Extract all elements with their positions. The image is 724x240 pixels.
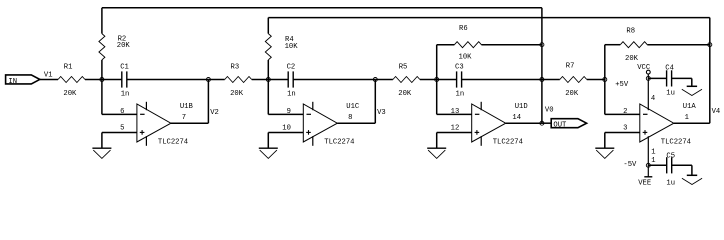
op-amp U1D plus sign: [475, 131, 480, 133]
power symbol VCC: [646, 70, 650, 74]
wire IN to R1: [40, 79, 58, 81]
svg-text:14: 14: [512, 114, 521, 122]
svg-text:TLC2274: TLC2274: [324, 139, 354, 147]
svg-text:1n: 1n: [287, 90, 296, 98]
op-amp U1B minus sign: [140, 113, 145, 115]
wire to ground: [436, 133, 438, 148]
capacitor C4 1u: [666, 70, 668, 86]
svg-text:U1C: U1C: [346, 103, 360, 111]
op-amp U1C V+ stub: [312, 102, 314, 110]
wire VEE to C5: [648, 164, 666, 166]
wire R5 to node C: [420, 79, 437, 81]
resistor R7 20K: [560, 77, 587, 83]
svg-text:R3: R3: [231, 63, 240, 71]
wire output pin 1: [674, 122, 710, 124]
svg-text:+5V: +5V: [615, 81, 629, 89]
svg-text:6: 6: [120, 108, 124, 116]
svg-text:8: 8: [348, 114, 352, 122]
svg-text:C2: C2: [287, 64, 296, 72]
svg-text:20K: 20K: [398, 90, 412, 98]
capacitor C3 1n: [456, 71, 458, 87]
svg-text:IN: IN: [8, 78, 17, 86]
svg-text:U1B: U1B: [180, 103, 194, 111]
svg-text:1u: 1u: [666, 180, 675, 188]
resistor R4 10K: [265, 34, 271, 60]
wire R2 to node A: [101, 60, 103, 80]
wire rail2 drop to R4: [267, 18, 269, 34]
svg-text:V1: V1: [44, 71, 53, 79]
op-amp U1B triangle: [137, 104, 171, 142]
op-amp U1B plus sign: [140, 131, 145, 133]
wire output pin 14: [506, 122, 542, 124]
svg-text:20K: 20K: [117, 42, 131, 50]
svg-text:C5: C5: [666, 153, 675, 161]
wire R3 to node B: [252, 79, 269, 81]
wire node C up to R6: [436, 45, 438, 80]
junction node B: [266, 78, 270, 82]
svg-text:20K: 20K: [625, 55, 639, 63]
resistor R2 20K: [99, 34, 105, 60]
svg-text:-5V: -5V: [623, 161, 637, 169]
ground: [427, 147, 446, 149]
wire R1 to node A: [85, 79, 102, 81]
op-amp U1D minus sign: [475, 113, 480, 115]
op-amp U1C triangle: [303, 104, 337, 142]
svg-text:10: 10: [282, 124, 291, 132]
wire VCC to pin 4: [647, 74, 649, 110]
junction V0 output: [540, 121, 544, 125]
svg-text:R7: R7: [566, 62, 575, 70]
resistor R1 20K: [58, 77, 85, 83]
svg-text:7: 7: [182, 114, 186, 122]
wire node to C2: [268, 79, 288, 81]
ground: [92, 147, 111, 149]
svg-text:U1D: U1D: [515, 103, 528, 111]
svg-text:20K: 20K: [63, 90, 77, 98]
wire output pin 7: [171, 122, 209, 124]
wire node to C1: [102, 79, 122, 81]
capacitor C1 1n: [121, 71, 123, 87]
wire non-inverting input pin 3: [605, 132, 640, 134]
op-amp U1D V- stub: [480, 136, 482, 146]
svg-text:TLC2274: TLC2274: [493, 139, 523, 147]
wire node down to pin 9: [267, 80, 269, 115]
wire non-inverting input pin 5: [102, 132, 137, 134]
wire V3 to R5: [375, 79, 393, 81]
wire node D up to R8: [604, 45, 606, 80]
svg-text:C4: C4: [665, 65, 674, 73]
wire inverting input pin 13: [437, 113, 472, 115]
ground for C4: [687, 85, 697, 87]
op-amp U1A triangle: [640, 104, 674, 142]
wire V4 column: [709, 18, 711, 124]
junction node D: [603, 78, 607, 82]
svg-text:U1A: U1A: [683, 103, 697, 111]
junction node A: [100, 78, 104, 82]
wire R8 to V4 column: [647, 44, 710, 46]
junction node C: [435, 78, 439, 82]
svg-text:2: 2: [623, 108, 627, 116]
wire to ground: [101, 133, 103, 148]
wire C5 to ground: [672, 164, 692, 166]
ground: [595, 147, 614, 149]
svg-text:10K: 10K: [459, 53, 473, 61]
ground: [259, 147, 278, 149]
ground for C5: [687, 174, 697, 176]
wire output pin 8: [337, 122, 375, 124]
svg-text:1n: 1n: [456, 90, 465, 98]
svg-text:1: 1: [651, 148, 655, 156]
wire C1 to output column: [127, 79, 209, 81]
svg-text:20K: 20K: [565, 90, 579, 98]
wire V3 column: [374, 80, 376, 124]
resistor R3 20K: [225, 77, 252, 83]
svg-text:V0: V0: [545, 106, 554, 114]
wire node down to pin 6: [101, 80, 103, 115]
svg-text:R6: R6: [459, 25, 468, 33]
wire C2 to output column: [293, 79, 375, 81]
wire rail1 drop to R2: [101, 8, 103, 34]
resistor R8 20K: [620, 42, 647, 48]
junction V2: [206, 78, 210, 82]
port IN: [6, 75, 40, 84]
wire R7 from V0 node: [542, 79, 560, 81]
wire R4 to node B: [267, 60, 269, 80]
junction VCC branch: [646, 76, 650, 80]
op-amp U1B V- stub: [145, 136, 147, 146]
svg-text:V4: V4: [712, 108, 721, 116]
svg-text:1u: 1u: [666, 90, 675, 98]
junction V0 main line: [540, 78, 544, 82]
svg-text:10K: 10K: [285, 43, 299, 51]
op-amp U1C minus sign: [307, 113, 312, 115]
op-amp U1A minus sign: [643, 113, 648, 115]
wire V2 column: [207, 80, 209, 124]
capacitor C2 1n: [287, 71, 289, 87]
svg-text:12: 12: [451, 124, 460, 132]
op-amp U1C plus sign: [306, 131, 311, 133]
svg-text:C3: C3: [455, 64, 464, 72]
power symbol VEE: [644, 176, 652, 178]
wire V0 column: [541, 8, 543, 123]
wire C4 to ground: [672, 77, 692, 79]
svg-text:V3: V3: [377, 109, 386, 117]
port OUT: [551, 119, 586, 128]
op-amp U1D triangle: [472, 104, 506, 142]
svg-text:9: 9: [287, 108, 291, 116]
wire inverting input pin 9: [268, 113, 303, 115]
svg-text:R8: R8: [626, 27, 635, 35]
wire R6 to V0 column: [481, 44, 542, 46]
resistor R5 20K: [393, 77, 420, 83]
wire non-inverting input pin 12: [437, 132, 472, 134]
wire to ground: [604, 133, 606, 148]
svg-text:20K: 20K: [230, 90, 244, 98]
wire VCC to C4: [648, 77, 666, 79]
svg-text:1n: 1n: [121, 90, 130, 98]
svg-text:VEE: VEE: [638, 179, 651, 187]
junction V3: [373, 78, 377, 82]
wire inverting input pin 2: [605, 113, 640, 115]
svg-text:R5: R5: [399, 63, 408, 71]
capacitor C5 1u: [666, 157, 668, 173]
svg-text:R1: R1: [64, 63, 73, 71]
wire non-inverting input pin 10: [268, 132, 303, 134]
wire node down to pin 13: [436, 80, 438, 115]
op-amp U1C V- stub: [312, 136, 314, 146]
svg-text:OUT: OUT: [553, 122, 567, 130]
wire pin 11 to VEE: [647, 136, 649, 176]
svg-text:5: 5: [120, 124, 124, 132]
svg-text:TLC2274: TLC2274: [661, 139, 691, 147]
wire V2 to R3: [208, 79, 224, 81]
svg-text:1: 1: [685, 114, 689, 122]
resistor R6 10K: [454, 42, 481, 48]
wire R7 to node D: [587, 79, 605, 81]
wire V0 to OUT port: [542, 122, 551, 124]
wire node down to pin 2: [604, 80, 606, 115]
svg-text:1: 1: [651, 157, 655, 165]
svg-text:VCC: VCC: [637, 64, 651, 72]
op-amp U1A plus sign: [643, 131, 648, 133]
op-amp U1B V+ stub: [145, 102, 147, 110]
svg-text:3: 3: [623, 124, 627, 132]
wire rail1 top feedback: [102, 7, 542, 9]
junction R8 at V4 column: [708, 43, 712, 47]
wire rail2 second feedback: [268, 17, 710, 19]
junction VEE branch: [646, 163, 650, 167]
wire C3 to output column: [462, 79, 542, 81]
wire node to C3: [437, 79, 457, 81]
svg-text:TLC2274: TLC2274: [158, 139, 188, 147]
wire to ground: [267, 133, 269, 148]
svg-text:C1: C1: [120, 64, 129, 72]
wire inverting input pin 6: [102, 113, 137, 115]
svg-text:13: 13: [451, 108, 460, 116]
svg-text:4: 4: [651, 95, 655, 103]
op-amp U1D V+ stub: [480, 102, 482, 110]
svg-text:V2: V2: [210, 109, 219, 117]
junction R6 at V0 column: [540, 43, 544, 47]
